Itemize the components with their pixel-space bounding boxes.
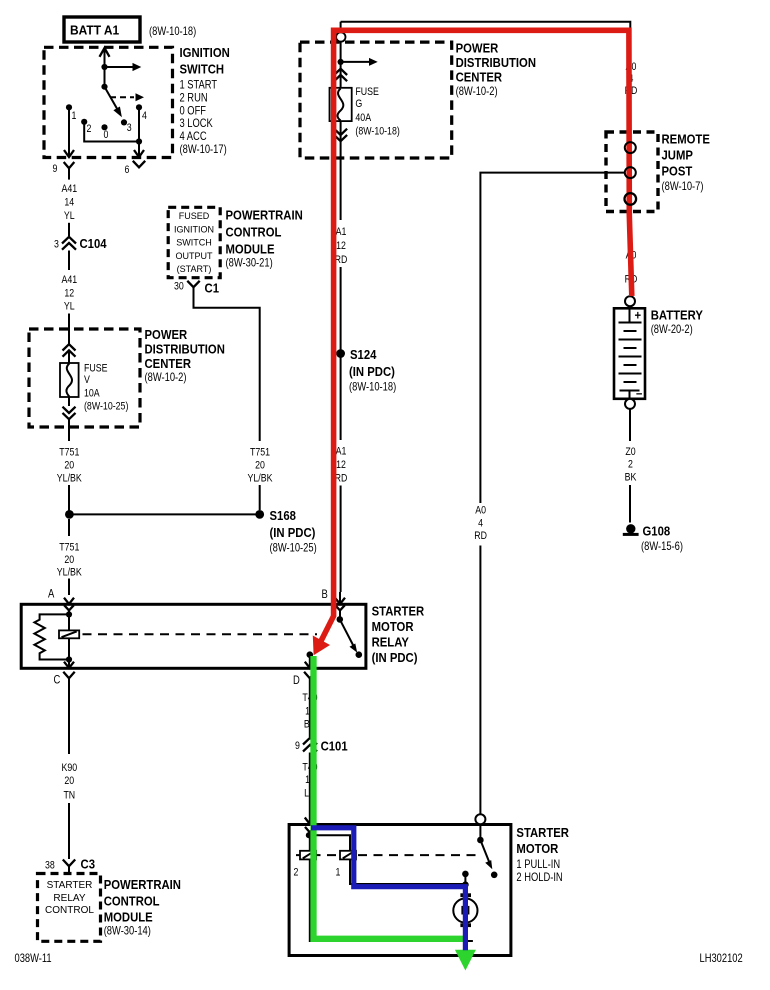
wire segment C101 down to starter motor — [309, 753, 311, 824]
in-PDC connector chevrons (down) — [63, 407, 76, 420]
connector C3 pin 38 — [45, 857, 95, 874]
svg-text:MOTOR: MOTOR — [372, 619, 414, 634]
svg-text:RELAY: RELAY — [53, 893, 85, 904]
svg-text:6: 6 — [125, 164, 130, 176]
wire label A0 4 RD (starter branch) — [474, 505, 487, 543]
wire segment to ground G108 — [629, 485, 631, 523]
svg-text:4 ACC: 4 ACC — [180, 129, 207, 143]
wire to fuse V — [68, 351, 70, 363]
relay pin C exit arrow and connector — [54, 660, 75, 687]
svg-text:S168: S168 — [270, 508, 296, 523]
wire from S124 down to relay pin B — [340, 354, 342, 441]
svg-text:0: 0 — [104, 129, 109, 141]
svg-text:9: 9 — [53, 163, 58, 175]
svg-text:12: 12 — [64, 287, 74, 299]
relay coil top junction dot — [66, 611, 72, 617]
svg-text:038W-11: 038W-11 — [15, 951, 52, 965]
svg-text:YL/BK: YL/BK — [248, 473, 274, 485]
ignition switch node dot (feed junction) — [101, 64, 107, 70]
pin 9 connector below ignition switch — [53, 162, 75, 180]
svg-text:(8W-10-7): (8W-10-7) — [662, 179, 704, 193]
battery box — [614, 308, 645, 399]
relay pin D exit arrow and connector — [293, 655, 316, 688]
relay output junction dot (pin D) — [307, 651, 314, 658]
svg-text:C1: C1 — [205, 281, 220, 296]
svg-text:12: 12 — [336, 459, 346, 471]
wire segment to splice S124 — [340, 267, 342, 354]
wire label A1 12 RD (upper) — [335, 226, 348, 266]
relay pin B entry arrow — [322, 587, 346, 619]
wire label A41 14 YL — [61, 183, 77, 222]
wire segment to splice S168 — [68, 485, 70, 514]
ground G108 label block — [641, 524, 683, 554]
svg-text:A1: A1 — [336, 446, 347, 458]
svg-text:TN: TN — [63, 790, 75, 802]
splice S168 label block — [270, 508, 317, 555]
wire from K90 label down to C3 — [68, 687, 70, 860]
power distribution center dashed box (fuse V) — [29, 329, 140, 427]
ignition switch wiper pivot dot — [101, 84, 107, 90]
svg-text:FUSED: FUSED — [179, 211, 210, 222]
svg-text:–: – — [636, 386, 642, 401]
contact dot 2 — [81, 119, 87, 125]
wire segment relay D to C101 — [309, 688, 311, 738]
svg-text:POWERTRAIN: POWERTRAIN — [226, 208, 303, 223]
starter solenoid switch wire from A0 — [475, 814, 485, 824]
svg-text:STARTER: STARTER — [47, 880, 93, 891]
splice bus wire — [69, 513, 260, 515]
wire junction down to pin 6 with arrow at box edge — [134, 142, 144, 158]
relay pin A entry arrow — [48, 587, 74, 615]
wire label T751 20 YL/BK (C1 branch) — [248, 447, 274, 485]
solenoid hold-in coil 2 — [294, 851, 317, 879]
wire from terminal into PDC — [340, 41, 342, 62]
svg-text:B: B — [322, 587, 328, 601]
svg-text:20: 20 — [64, 775, 74, 787]
solid arrow to RUN position — [105, 63, 142, 71]
in-PDC connector chevrons (down) — [334, 129, 347, 142]
svg-text:C104: C104 — [80, 236, 108, 251]
svg-text:YL: YL — [64, 210, 75, 222]
powertrain control module label block (upper) — [226, 208, 303, 270]
svg-text:LH302102: LH302102 — [700, 951, 743, 965]
svg-text:(8W-10-17): (8W-10-17) — [180, 142, 227, 156]
svg-text:10A: 10A — [84, 388, 100, 400]
svg-text:POWER: POWER — [456, 41, 499, 56]
svg-text:SWITCH: SWITCH — [180, 62, 225, 77]
svg-text:1 PULL-IN: 1 PULL-IN — [516, 857, 560, 871]
internal feed arrow (to other circuits) — [341, 58, 378, 66]
svg-text:CENTER: CENTER — [456, 70, 503, 85]
connector C101 — [295, 738, 348, 754]
contact dot 4 — [136, 104, 142, 110]
wire label A1 12 RD (lower) — [335, 446, 348, 485]
ignition switch label block — [180, 45, 230, 156]
svg-text:S124: S124 — [350, 347, 377, 362]
solenoid pull-in coil 1 — [336, 851, 357, 879]
svg-text:4: 4 — [478, 518, 483, 530]
PDC label block (left) — [145, 327, 225, 384]
wire from C1 down and over to S168 — [194, 287, 260, 510]
battery label block — [651, 308, 703, 337]
svg-text:DISTRIBUTION: DISTRIBUTION — [145, 342, 225, 357]
red hot-at-all-times highlight path — [313, 30, 632, 655]
motor feed terminal dot — [462, 871, 469, 878]
connector C1 pin 30 — [174, 281, 219, 296]
svg-text:POST: POST — [662, 164, 693, 179]
ground G108 symbol — [623, 524, 639, 536]
motor brush bars — [460, 893, 471, 897]
svg-text:BATT A1: BATT A1 — [70, 23, 119, 38]
battery internal plates — [619, 308, 642, 399]
svg-text:POWER: POWER — [145, 327, 188, 342]
ignition switch feed wire with up arrow to BATT A1 — [100, 48, 110, 87]
svg-text:(8W-15-6): (8W-15-6) — [641, 539, 683, 553]
in-line terminal circle above PDC — [336, 32, 345, 41]
svg-text:CONTROL: CONTROL — [226, 225, 282, 240]
wire segment below C104 — [68, 251, 70, 271]
svg-text:STARTER: STARTER — [372, 604, 425, 619]
power distribution center dashed box (fuse G) — [300, 42, 452, 158]
wire label A0 4 RD (top right) — [625, 61, 638, 97]
svg-text:FUSE: FUSE — [84, 363, 108, 375]
powertrain control module dashed box (starter relay control) — [38, 874, 101, 942]
contact dot 0 — [101, 124, 107, 130]
fuse V element — [60, 363, 79, 397]
starter motor label block — [516, 825, 569, 884]
splice S168 right junction dot — [255, 510, 264, 519]
remote jump post dashed box — [606, 132, 658, 212]
svg-text:C101: C101 — [321, 739, 348, 754]
svg-text:(8W-30-21): (8W-30-21) — [226, 256, 273, 270]
PDC internal junction dot — [338, 59, 344, 65]
relay resistor (parallel) — [34, 614, 69, 659]
svg-text:(8W-10-18): (8W-10-18) — [355, 126, 399, 138]
svg-text:CENTER: CENTER — [145, 356, 192, 371]
svg-text:G: G — [355, 98, 362, 110]
svg-text:V: V — [84, 374, 90, 386]
ignition switch dashed box — [44, 47, 173, 157]
splice S124 junction dot — [336, 349, 345, 358]
wire label K90 20 TN — [61, 762, 77, 802]
svg-text:C3: C3 — [81, 857, 96, 872]
svg-text:1 START: 1 START — [180, 78, 218, 92]
relay NO contact dot — [356, 651, 363, 658]
wire segment to C104 — [68, 223, 70, 236]
svg-text:40A: 40A — [355, 112, 371, 124]
motor circle — [453, 898, 477, 922]
svg-text:3: 3 — [54, 238, 59, 250]
jump post internal wire — [629, 142, 631, 296]
PDC label block (top) — [456, 41, 536, 99]
svg-text:(8W-10-18): (8W-10-18) — [349, 380, 396, 394]
svg-text:D: D — [293, 673, 300, 687]
wire into power distribution center — [68, 314, 70, 345]
starter motor relay box — [21, 604, 366, 668]
svg-text:T751: T751 — [59, 447, 79, 459]
wire from fuse V out of PDC — [68, 397, 70, 406]
splice S168 left junction dot — [65, 510, 74, 519]
remote jump post label block — [662, 131, 711, 193]
relay coil bottom junction dot — [66, 656, 72, 662]
svg-text:A: A — [48, 587, 54, 601]
svg-text:4: 4 — [142, 110, 147, 122]
svg-text:20: 20 — [255, 460, 265, 472]
svg-text:A0: A0 — [475, 505, 486, 517]
svg-text:2: 2 — [87, 123, 92, 135]
relay switch arm — [340, 619, 357, 652]
svg-text:(8W-10-2): (8W-10-2) — [145, 370, 187, 384]
svg-text:MOTOR: MOTOR — [516, 841, 558, 856]
fuse G label block — [355, 86, 399, 137]
svg-text:YL/BK: YL/BK — [57, 567, 83, 579]
svg-text:RELAY: RELAY — [372, 635, 410, 650]
starter pin entry arrow — [305, 818, 315, 836]
svg-text:3: 3 — [127, 122, 132, 134]
wire label A0 4 RD (below jump post) — [625, 250, 638, 286]
wire label Z0 2 BK — [625, 446, 637, 484]
BATT A1 feed box — [64, 17, 140, 42]
pin 6 connector below ignition switch — [125, 161, 146, 176]
svg-text:BATTERY: BATTERY — [651, 308, 703, 323]
wiper arm with arrowhead toward contact 3 — [105, 87, 122, 118]
svg-text:RD: RD — [335, 473, 348, 485]
wire contact1 down to pin 9 with arrow at box edge — [64, 107, 74, 157]
svg-text:A41: A41 — [61, 183, 77, 195]
relay label block — [372, 604, 425, 666]
pull-in coil wire — [309, 835, 466, 884]
svg-text:38: 38 — [45, 860, 55, 872]
svg-text:A41: A41 — [61, 274, 77, 286]
branch wire A0 to starter motor (horizontal) — [480, 173, 624, 503]
svg-text:T751: T751 — [250, 447, 270, 459]
svg-text:REMOTE: REMOTE — [662, 131, 711, 146]
starter relay control text — [45, 880, 94, 916]
svg-text:DISTRIBUTION: DISTRIBUTION — [456, 55, 536, 70]
battery negative terminal circle — [625, 399, 635, 409]
wire label T751 20 YL/BK (upper) — [57, 447, 83, 485]
wire from fuse G down — [340, 121, 342, 220]
svg-text:RD: RD — [474, 530, 487, 542]
relay coil element — [59, 630, 79, 638]
wire to fuse G — [340, 62, 342, 88]
svg-text:JUMP: JUMP — [662, 148, 694, 163]
svg-text:9: 9 — [295, 740, 300, 752]
in-PDC connector chevrons (up) — [63, 344, 76, 357]
svg-text:CONTROL: CONTROL — [104, 894, 160, 909]
connector C104 — [54, 236, 107, 251]
wire label T40 12 BR (relay to C101) — [302, 692, 317, 731]
svg-text:MODULE: MODULE — [104, 910, 153, 925]
relay coil wire — [68, 614, 70, 659]
svg-text:(8W-10-18): (8W-10-18) — [149, 24, 196, 38]
svg-text:14: 14 — [64, 197, 74, 209]
wire label A41 12 YL — [61, 274, 77, 312]
svg-text:12: 12 — [336, 240, 346, 252]
svg-text:BK: BK — [625, 472, 637, 484]
wire contact4 down to corner junction — [138, 107, 140, 141]
fuse G element — [330, 88, 352, 121]
svg-text:MODULE: MODULE — [226, 242, 275, 257]
solenoid NO contact dot — [491, 872, 498, 879]
svg-text:20: 20 — [64, 460, 74, 472]
svg-text:(IN PDC): (IN PDC) — [372, 650, 418, 665]
solenoid switch arm with arrowhead — [480, 840, 492, 869]
wire label T40 12 LG (C101 to starter) — [302, 762, 317, 800]
svg-text:(IN PDC): (IN PDC) — [349, 364, 395, 379]
svg-text:T751: T751 — [59, 542, 79, 554]
svg-text:RD: RD — [335, 254, 348, 266]
remote jump post terminal circles — [625, 142, 637, 205]
wire label T751 20 YL/BK (lower) — [57, 519, 83, 579]
motor armature square — [461, 906, 469, 915]
svg-text:(8W-20-2): (8W-20-2) — [651, 322, 693, 336]
svg-text:YL/BK: YL/BK — [57, 473, 83, 485]
svg-text:30: 30 — [174, 281, 184, 293]
solenoid switch pivot dot — [477, 837, 484, 844]
svg-text:FUSE: FUSE — [355, 86, 379, 98]
svg-text:2: 2 — [294, 867, 299, 879]
wire from battery negative — [629, 409, 631, 441]
hold-in coil ground wire — [310, 835, 473, 941]
svg-text:+: + — [635, 307, 642, 322]
svg-text:POWERTRAIN: POWERTRAIN — [104, 877, 181, 892]
splice S124 label block — [349, 347, 396, 394]
svg-text:1: 1 — [336, 867, 341, 879]
solenoid actuation dashed line — [296, 854, 477, 856]
in-PDC connector chevrons (up) — [334, 69, 347, 82]
wire stub from top feed into PDC — [340, 22, 342, 33]
svg-text:IGNITION: IGNITION — [180, 45, 230, 60]
svg-text:STARTER: STARTER — [516, 825, 569, 840]
svg-text:G108: G108 — [643, 524, 671, 539]
dashed arrow (momentary start direction) — [110, 93, 144, 101]
battery positive terminal circle — [625, 296, 635, 306]
relay actuation dashed line — [83, 633, 318, 635]
wire into relay pin A — [68, 579, 70, 596]
contact dot 1 — [66, 104, 72, 110]
svg-text:(IN PDC): (IN PDC) — [270, 525, 316, 540]
fuse V label block — [84, 363, 128, 413]
powertrain control module dashed box (fused ignition switch output) — [168, 207, 220, 277]
svg-text:1: 1 — [72, 110, 77, 122]
svg-text:Z0: Z0 — [625, 446, 635, 458]
relay common contact dot — [337, 616, 344, 623]
svg-text:OUTPUT: OUTPUT — [175, 251, 212, 262]
fused ignition switch output text — [174, 211, 214, 275]
svg-text:20: 20 — [64, 554, 74, 566]
solenoid feed junction dot — [306, 832, 312, 838]
corner junction dot — [136, 138, 142, 144]
svg-text:IGNITION: IGNITION — [174, 224, 214, 235]
svg-text:K90: K90 — [61, 762, 77, 774]
svg-text:A1: A1 — [336, 226, 347, 238]
motor feed junction dot — [462, 881, 469, 888]
contact dot 3 — [121, 119, 127, 125]
branch wire segment down to starter motor — [479, 546, 481, 815]
svg-text:CONTROL: CONTROL — [45, 905, 94, 916]
svg-text:YL: YL — [64, 301, 75, 313]
blue pull-in highlight path — [311, 828, 465, 950]
svg-text:SWITCH: SWITCH — [176, 238, 212, 249]
powertrain control module label block (lower) — [104, 877, 181, 938]
svg-text:(8W-30-14): (8W-30-14) — [104, 924, 151, 938]
motor wire through armature — [464, 874, 466, 941]
svg-text:2 HOLD-IN: 2 HOLD-IN — [516, 870, 562, 884]
svg-text:C: C — [54, 673, 61, 687]
svg-text:(8W-10-2): (8W-10-2) — [456, 84, 498, 98]
svg-text:(8W-10-25): (8W-10-25) — [270, 541, 317, 555]
battery polarity marks — [635, 307, 643, 400]
green starter feed highlight path — [314, 656, 476, 971]
wire segment into relay pin B — [340, 486, 342, 593]
top feed wire from PDC to remote jump post — [341, 22, 631, 142]
svg-text:2: 2 — [628, 459, 633, 471]
svg-text:(START): (START) — [177, 264, 212, 275]
wire contact2 to corner junction — [84, 122, 139, 142]
svg-text:(8W-10-25): (8W-10-25) — [84, 401, 128, 413]
starter motor box — [289, 825, 511, 956]
